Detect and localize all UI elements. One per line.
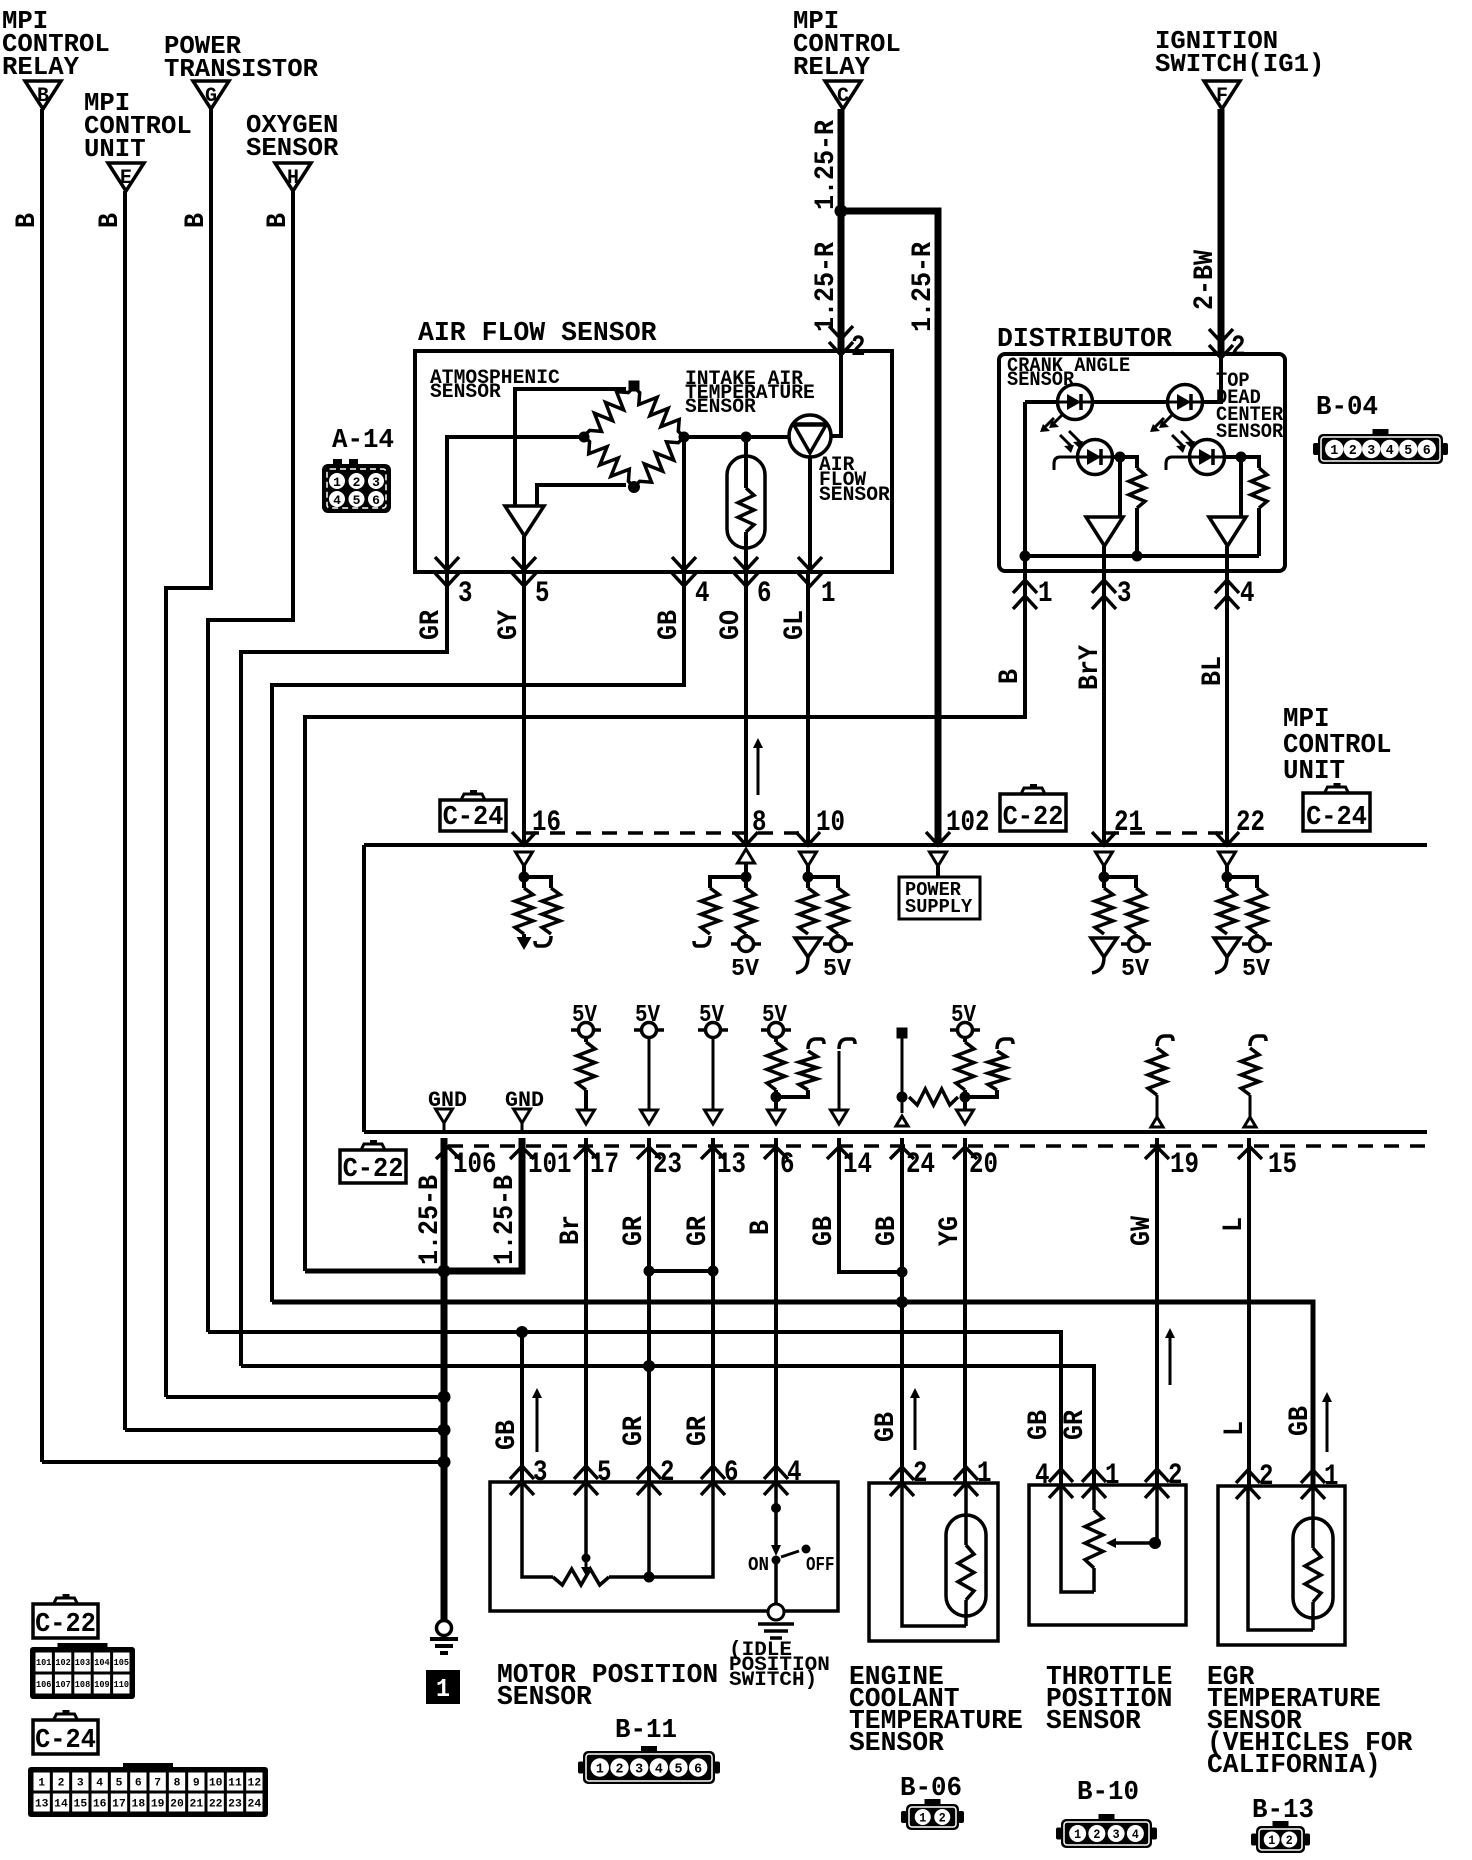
amplifier triangle (atmospheric sensor)	[505, 506, 544, 536]
wire L pin15 to EGR pin2	[1247, 1138, 1251, 1486]
svg-text:B: B	[95, 213, 126, 228]
svg-text:B: B	[181, 213, 212, 228]
svg-text:21: 21	[190, 1798, 204, 1810]
resistor bridge bottom-left arm	[584, 436, 634, 487]
connector label C-24 (upper left)	[440, 800, 506, 831]
bridge left corner dot	[579, 432, 590, 443]
svg-text:2: 2	[1093, 1827, 1100, 1842]
component box EGR SENSOR	[1218, 1486, 1345, 1645]
connector triangle G	[193, 81, 229, 109]
svg-text:4: 4	[787, 1456, 802, 1490]
ECU pin24 wire	[901, 1033, 904, 1113]
junction dot pin24 wire	[897, 1267, 908, 1278]
connector crossing arrows AFS pin 2	[829, 326, 853, 339]
svg-text:5: 5	[116, 1777, 123, 1789]
wire air flow meter to AFS pin 2 riser	[831, 351, 841, 436]
ECU pin24 junction dot	[897, 1092, 908, 1103]
bridge right corner dot	[679, 432, 690, 443]
svg-text:5V: 5V	[951, 1002, 977, 1029]
svg-text:15: 15	[1268, 1148, 1297, 1182]
component box MOTOR POSITION SENSOR	[490, 1482, 838, 1611]
connector crossing arrows MPS pin 6	[701, 1466, 725, 1479]
svg-text:4: 4	[1132, 1827, 1139, 1842]
svg-text:6: 6	[694, 1762, 702, 1778]
svg-text:5V: 5V	[731, 956, 760, 983]
connector crossing arrows TPS pin 2	[1145, 1469, 1169, 1482]
wire B-dist joins ground net	[305, 1269, 444, 1274]
wire B from MPI control unit E	[123, 191, 127, 1430]
svg-text:8: 8	[174, 1777, 181, 1789]
wire GB from AFS pin 4 (jog left)	[272, 572, 684, 1302]
wire GR net horizontal (to TPS pin1)	[241, 1366, 1094, 1485]
svg-text:4: 4	[655, 1762, 663, 1778]
svg-text:107: 107	[55, 1680, 70, 1690]
svg-text:22: 22	[209, 1798, 223, 1810]
svg-text:1.25-B: 1.25-B	[490, 1175, 521, 1265]
wire buffer tdc output	[1225, 546, 1229, 571]
svg-text:G: G	[205, 85, 217, 108]
svg-text:SENSOR: SENSOR	[246, 133, 339, 163]
bus crossing arrow ECU pin 24 (lower)	[890, 1147, 914, 1159]
connector crossing arrows distributor pin 3	[1092, 580, 1116, 593]
wire EGR pin1 through thermistor	[1311, 1486, 1315, 1548]
ECU pin19 resistor	[1157, 1036, 1173, 1046]
ECU pin13 output triangle	[705, 1110, 722, 1124]
svg-text:DISTRIBUTOR: DISTRIBUTOR	[997, 325, 1173, 355]
svg-text:1: 1	[1074, 1827, 1081, 1842]
svg-text:SENSOR: SENSOR	[497, 1683, 593, 1713]
svg-text:B: B	[37, 85, 49, 108]
wire potentiometer to MPS pin6	[609, 1482, 713, 1577]
svg-text:1: 1	[333, 475, 341, 490]
bus crossing arrow ECU pin 13 (lower)	[701, 1147, 725, 1159]
svg-text:1: 1	[1038, 577, 1053, 611]
svg-text:RELAY: RELAY	[2, 52, 79, 82]
ECU pin10 resistor right	[829, 888, 847, 934]
wire distributor left rail	[1023, 402, 1027, 556]
ECU pin19 input triangle	[1151, 1117, 1163, 1127]
wire MPS pin5 wiper	[584, 1482, 588, 1558]
svg-text:B-11: B-11	[615, 1716, 677, 1746]
svg-text:2-BW: 2-BW	[1190, 250, 1221, 310]
signal direction arrow EGR pin1	[1326, 1396, 1329, 1452]
svg-text:5V: 5V	[1242, 956, 1271, 983]
svg-text:108: 108	[75, 1680, 90, 1690]
svg-text:5V: 5V	[699, 1002, 725, 1029]
junction dot crank photodiode	[1115, 452, 1126, 463]
idle switch lever	[781, 1551, 799, 1557]
GND triangle (pin 106)	[436, 1109, 453, 1123]
potentiometer resistor TPS	[1092, 1485, 1096, 1510]
svg-text:1: 1	[1330, 443, 1338, 459]
wire 1.25-R from relay C to AFS pin 2	[838, 109, 845, 351]
svg-text:B: B	[995, 669, 1026, 684]
svg-text:1: 1	[1105, 1459, 1120, 1493]
svg-text:16: 16	[532, 806, 561, 840]
svg-text:1: 1	[596, 1762, 604, 1778]
connector crossing arrows MPS pin 2	[637, 1466, 661, 1479]
ECU bus line (lower)	[364, 1130, 1427, 1134]
svg-text:1: 1	[919, 1811, 926, 1826]
wire B from power transistor G	[166, 109, 211, 1397]
ECU pin22 input triangle	[1219, 852, 1236, 866]
wire idle switch pin4	[774, 1482, 778, 1545]
svg-text:CALIFORNIA): CALIFORNIA)	[1207, 1751, 1381, 1781]
ECU pin22 internal wire	[1225, 866, 1229, 888]
ECU pin21 transistor symbol	[1091, 938, 1117, 957]
svg-text:6: 6	[757, 577, 772, 611]
wire GB pin24 to ECT pin2	[900, 1138, 904, 1483]
svg-text:SWITCH(IG1): SWITCH(IG1)	[1155, 49, 1324, 79]
ECU pin22 5V terminal	[1255, 934, 1259, 937]
idle switch ground symbol	[768, 1604, 784, 1620]
connector crossing arrows TPS pin 1	[1082, 1469, 1106, 1482]
svg-text:3: 3	[1367, 443, 1375, 459]
connector crossing arrows AFS pin 5	[512, 557, 536, 570]
resistor bridge top-left arm	[584, 387, 634, 436]
svg-text:OFF: OFF	[806, 1554, 835, 1576]
svg-text:C-24: C-24	[443, 803, 504, 833]
connector crossing arrows distributor pin 1	[1013, 580, 1037, 593]
wire photodiode to junction (tdc)	[1224, 455, 1241, 459]
ECU pin10 junction dot	[803, 872, 814, 883]
wire ECT pin1 through thermistor	[964, 1483, 968, 1545]
jumper pin23-pin13	[649, 1269, 713, 1273]
wire tdc photodiode to buffer	[1239, 457, 1243, 517]
ECU pin16 right resistor pigtail	[535, 936, 551, 946]
svg-text:6: 6	[135, 1777, 142, 1789]
svg-text:2: 2	[1349, 443, 1357, 459]
svg-text:110: 110	[114, 1680, 129, 1690]
svg-text:A-14: A-14	[332, 426, 394, 456]
ECU pin17 output triangle	[578, 1110, 595, 1124]
wire B pin6 to idle switch pin4	[774, 1138, 778, 1482]
ECU connector dashed line (upper) segment B	[1104, 831, 1227, 835]
ECU pin21 input triangle	[1096, 852, 1113, 866]
svg-text:GB: GB	[1024, 1410, 1055, 1440]
ECU pin16 solid arrow to ground	[522, 934, 526, 938]
svg-text:5: 5	[597, 1456, 612, 1490]
junction dot ground net	[438, 1265, 451, 1278]
svg-text:GB: GB	[492, 1420, 523, 1450]
signal direction arrow near pin 8	[757, 742, 760, 795]
svg-text:22: 22	[1236, 806, 1265, 840]
connector crossing arrows EGR pin 2	[1236, 1470, 1260, 1483]
svg-text:4: 4	[695, 577, 710, 611]
thermistor capsule (intake air temperature sensor)	[727, 456, 765, 548]
connector triangle B	[25, 81, 61, 109]
svg-text:B: B	[12, 213, 43, 228]
svg-text:GB: GB	[809, 1216, 840, 1246]
svg-text:SENSOR: SENSOR	[849, 1729, 945, 1759]
bridge bottom corner dot	[628, 481, 640, 493]
thermistor capsule EGR	[1293, 1518, 1333, 1618]
idle switch OFF contact dot	[802, 1545, 811, 1554]
photodiode crank angle sensor	[1078, 440, 1113, 475]
resistor bridge bottom-right arm	[634, 437, 684, 487]
svg-text:GO: GO	[716, 610, 747, 640]
svg-text:2: 2	[1168, 1459, 1183, 1493]
ECU pin21 resistor left	[1095, 888, 1113, 934]
svg-text:24: 24	[906, 1148, 935, 1182]
svg-text:E: E	[120, 167, 132, 190]
svg-text:1: 1	[436, 1674, 450, 1704]
svg-text:19: 19	[151, 1798, 165, 1810]
svg-text:10: 10	[209, 1777, 223, 1789]
svg-text:7: 7	[154, 1777, 161, 1789]
wire MPS pin3 to potentiometer	[522, 1482, 553, 1577]
svg-text:1.25-R: 1.25-R	[811, 120, 842, 210]
svg-text:20: 20	[170, 1798, 184, 1810]
svg-text:21: 21	[1114, 806, 1143, 840]
ECU pin13 wire	[712, 1037, 715, 1110]
ECU pin16 resistor left	[515, 888, 533, 934]
svg-text:GR: GR	[683, 1416, 714, 1446]
svg-text:1: 1	[1268, 1833, 1275, 1848]
svg-text:AIR FLOW SENSOR: AIR FLOW SENSOR	[418, 319, 657, 349]
svg-text:3: 3	[1117, 577, 1132, 611]
GND wire pin101	[521, 1123, 524, 1132]
wire YG pin20 to ECT pin1	[963, 1138, 967, 1483]
connector icon B-13	[1256, 1826, 1305, 1853]
photodiode lead hook (crank)	[1054, 457, 1078, 470]
ECU pin14 output triangle	[831, 1110, 848, 1124]
wire GB to MPS pin3	[520, 1332, 524, 1482]
ECU pin8 resistor left	[701, 888, 719, 934]
svg-text:4: 4	[333, 493, 341, 508]
bus crossing arrow ECU pin 15 (lower)	[1238, 1147, 1262, 1159]
svg-text:2: 2	[939, 1811, 946, 1826]
resistor between pin24 and pin20 nets	[909, 1089, 958, 1105]
svg-text:101: 101	[36, 1658, 52, 1668]
connector label C-24 (bottom left)	[33, 1720, 98, 1754]
svg-text:5: 5	[535, 577, 550, 611]
svg-text:C-22: C-22	[35, 1610, 96, 1640]
ECU pin102 input triangle	[930, 852, 947, 866]
bus crossing arrow ECU pin 23 (lower)	[637, 1147, 661, 1159]
wire buffer crank output	[1102, 546, 1106, 571]
bus crossing arrow ECU pin 6 (lower)	[764, 1147, 788, 1159]
svg-text:104: 104	[94, 1658, 110, 1668]
connector crossing arrows EGR pin 1	[1301, 1470, 1325, 1483]
wire power transistor B joins ground	[166, 1395, 444, 1399]
wire amplifier output to AFS pin 5	[522, 536, 526, 572]
svg-text:GB: GB	[654, 610, 685, 640]
ECU pin14 pigtail	[839, 1039, 855, 1049]
potentiometer resistor MPS	[553, 1569, 609, 1585]
signal direction arrow TPS pin2	[1169, 1332, 1172, 1385]
svg-text:GB: GB	[871, 1412, 902, 1442]
svg-text:2: 2	[353, 475, 361, 490]
junction dot MPS pin2 tap	[644, 1572, 655, 1583]
svg-text:B: B	[746, 1220, 777, 1235]
ECU connector dashed line (upper) segment A	[524, 831, 807, 835]
marker numeral 1	[426, 1670, 460, 1704]
svg-text:6: 6	[372, 493, 380, 508]
wire AFS pin 6 through thermistor	[744, 437, 748, 488]
ECU pin6 resistor left	[774, 1037, 778, 1042]
svg-text:H: H	[287, 167, 299, 190]
svg-text:SENSOR: SENSOR	[1046, 1707, 1142, 1737]
wire 1.25-R branch to ECU pin 102	[841, 211, 938, 845]
junction dot pin20 net	[960, 1092, 971, 1103]
ECU pin10 5V terminal	[836, 934, 840, 937]
junction dot idle switch wire	[771, 1503, 781, 1513]
svg-text:GB: GB	[872, 1216, 903, 1246]
connector icon B-04	[1318, 434, 1443, 464]
svg-text:6: 6	[1423, 443, 1431, 459]
svg-text:5V: 5V	[1121, 956, 1150, 983]
svg-text:3: 3	[458, 577, 473, 611]
wire GR pin13 to MPS pin6	[711, 1138, 715, 1482]
ECU pin8 internal wire	[744, 863, 748, 888]
wire idle switch to ground	[774, 1560, 778, 1604]
connector label C-22 (bottom left)	[33, 1604, 98, 1638]
connector crossing arrows AFS pin 4	[672, 557, 696, 570]
bus crossing arrow ECU pin 101 (lower)	[510, 1147, 534, 1159]
ECU pin6 resistor right	[808, 1039, 824, 1049]
svg-text:14: 14	[54, 1798, 68, 1810]
svg-text:101: 101	[528, 1148, 572, 1182]
wire control unit B joins ground	[125, 1428, 444, 1432]
wire AFS pin 1 from air flow meter	[808, 457, 812, 572]
ECU pin10 branch wire	[808, 877, 838, 888]
svg-text:106: 106	[36, 1680, 51, 1690]
ECU pin24 input triangle	[896, 1116, 908, 1126]
wire photodiode to junction (crank)	[1112, 455, 1129, 459]
ECU pin8 resistor right	[737, 888, 755, 934]
resistor bridge top-right arm	[634, 387, 684, 437]
wire bridge top to amplifier	[515, 389, 626, 506]
component box TPS SENSOR	[1029, 1485, 1186, 1625]
svg-text:GR: GR	[683, 1216, 714, 1246]
svg-text:19: 19	[1170, 1148, 1199, 1182]
connector icon A-14	[322, 464, 391, 513]
bus crossing arrow ECU pin 19 (lower)	[1145, 1147, 1169, 1159]
svg-text:3: 3	[635, 1762, 643, 1778]
distributor bottom rail	[1025, 554, 1259, 558]
wire oxygen sensor net horizontal (to TPS pin4)	[208, 1332, 1061, 1485]
wire 1.25-B pin101 jumper	[444, 1138, 522, 1271]
ECU bus line (upper)	[364, 843, 1427, 847]
svg-text:L: L	[1220, 1421, 1251, 1436]
svg-text:10: 10	[816, 806, 845, 840]
wire B from MPI control relay B	[40, 109, 44, 1462]
svg-text:109: 109	[94, 1680, 109, 1690]
LED crank angle sensor	[1058, 385, 1093, 420]
wire GL from AFS pin 1 to ECU pin 10	[806, 572, 810, 845]
svg-text:4: 4	[96, 1777, 103, 1789]
svg-text:L: L	[1219, 1217, 1250, 1232]
ECU connector dashed line (lower)	[448, 1144, 1427, 1148]
bus crossing arrow ECU pin 16	[512, 832, 536, 845]
LED top dead center sensor	[1168, 385, 1203, 420]
connector icon B-10	[1061, 1819, 1152, 1848]
chassis ground symbol	[437, 1621, 452, 1636]
wire B from distributor pin 1 (jog left)	[305, 571, 1025, 1271]
connector crossing arrows distributor pin 2	[1209, 329, 1233, 342]
junction dot ground net (B)	[438, 1456, 451, 1469]
svg-text:2: 2	[1259, 1460, 1274, 1494]
ECU pin21 internal wire	[1102, 866, 1106, 888]
wire 2-BW from ignition switch F to distributor pin 2	[1218, 109, 1225, 354]
ECU pin22 resistor right	[1248, 888, 1266, 934]
svg-text:2: 2	[1286, 1833, 1293, 1848]
ECU pin102 wire to power supply	[936, 866, 940, 877]
ECU pin23 output triangle	[641, 1110, 658, 1124]
GND triangle (pin 101)	[514, 1109, 531, 1123]
wire ECT pin2 loop	[902, 1483, 966, 1626]
wire B from oxygen sensor H	[208, 191, 293, 1332]
svg-text:TRANSISTOR: TRANSISTOR	[164, 54, 318, 84]
svg-text:2: 2	[1231, 331, 1246, 365]
svg-text:20: 20	[969, 1148, 998, 1182]
ECU pin14 wire	[838, 1051, 841, 1110]
wire GY from AFS pin 5 to ECU pin 16	[522, 572, 526, 845]
component box ECT SENSOR	[869, 1483, 998, 1641]
junction dot TPS wiper	[1149, 1537, 1161, 1549]
TPS wiper arrow	[1116, 1541, 1155, 1545]
ECU pin22 transistor symbol	[1214, 938, 1240, 957]
ECU pin8 junction dot	[741, 872, 752, 883]
svg-text:GB: GB	[1285, 1406, 1316, 1436]
ECU pin16 resistor right	[542, 888, 560, 934]
potentiometer wiper dot	[582, 1554, 591, 1563]
junction dot tdc photodiode	[1236, 452, 1247, 463]
ECU pin21 branch wire	[1104, 877, 1136, 888]
svg-text:3: 3	[533, 1456, 548, 1490]
connector crossing arrows AFS pin 3	[435, 557, 459, 570]
connector icon B-11	[583, 1751, 715, 1784]
component box AIR FLOW SENSOR	[415, 351, 892, 572]
ECU pin21 resistor right	[1127, 888, 1145, 934]
bus crossing arrow ECU pin 20 (lower)	[953, 1147, 977, 1159]
svg-text:GR: GR	[619, 1216, 650, 1246]
svg-text:5: 5	[1404, 443, 1412, 459]
signal direction arrow MPS pin3	[536, 1392, 539, 1452]
ECU pin10 internal wire	[806, 866, 810, 888]
svg-text:B: B	[263, 213, 294, 228]
svg-text:11: 11	[228, 1777, 242, 1789]
MPI control unit left edge	[362, 845, 366, 1132]
svg-text:13: 13	[717, 1148, 746, 1182]
wire bridge right to air flow meter	[684, 435, 789, 439]
junction dot ground net (E)	[438, 1424, 451, 1437]
wire TPS pin4 loop	[1061, 1485, 1094, 1592]
ECU pin22 branch wire	[1227, 877, 1257, 888]
svg-text:3: 3	[372, 475, 380, 490]
idle switch pivot dot	[772, 1556, 781, 1565]
connector triangle H	[275, 163, 311, 191]
junction dot 1.25-R branch	[835, 205, 848, 218]
svg-text:9: 9	[193, 1777, 200, 1789]
svg-text:B-10: B-10	[1077, 1778, 1139, 1808]
bus crossing arrow ECU pin 17 (lower)	[574, 1147, 598, 1159]
svg-text:13: 13	[35, 1798, 49, 1810]
ECU pin23 wire	[648, 1037, 651, 1110]
svg-text:1.25-R: 1.25-R	[908, 242, 939, 332]
svg-text:18: 18	[132, 1798, 146, 1810]
potentiometer wiper arrow	[585, 1558, 588, 1567]
svg-text:5: 5	[353, 493, 361, 508]
svg-text:1.25-R: 1.25-R	[811, 242, 842, 332]
ECU pin6 output triangle	[768, 1110, 785, 1124]
svg-text:1: 1	[977, 1457, 992, 1491]
junction dot intake air temp sensor tap	[741, 432, 752, 443]
GND wire pin106	[443, 1123, 446, 1132]
svg-text:GW: GW	[1127, 1216, 1158, 1246]
ECU pin15 resistor	[1250, 1036, 1266, 1046]
